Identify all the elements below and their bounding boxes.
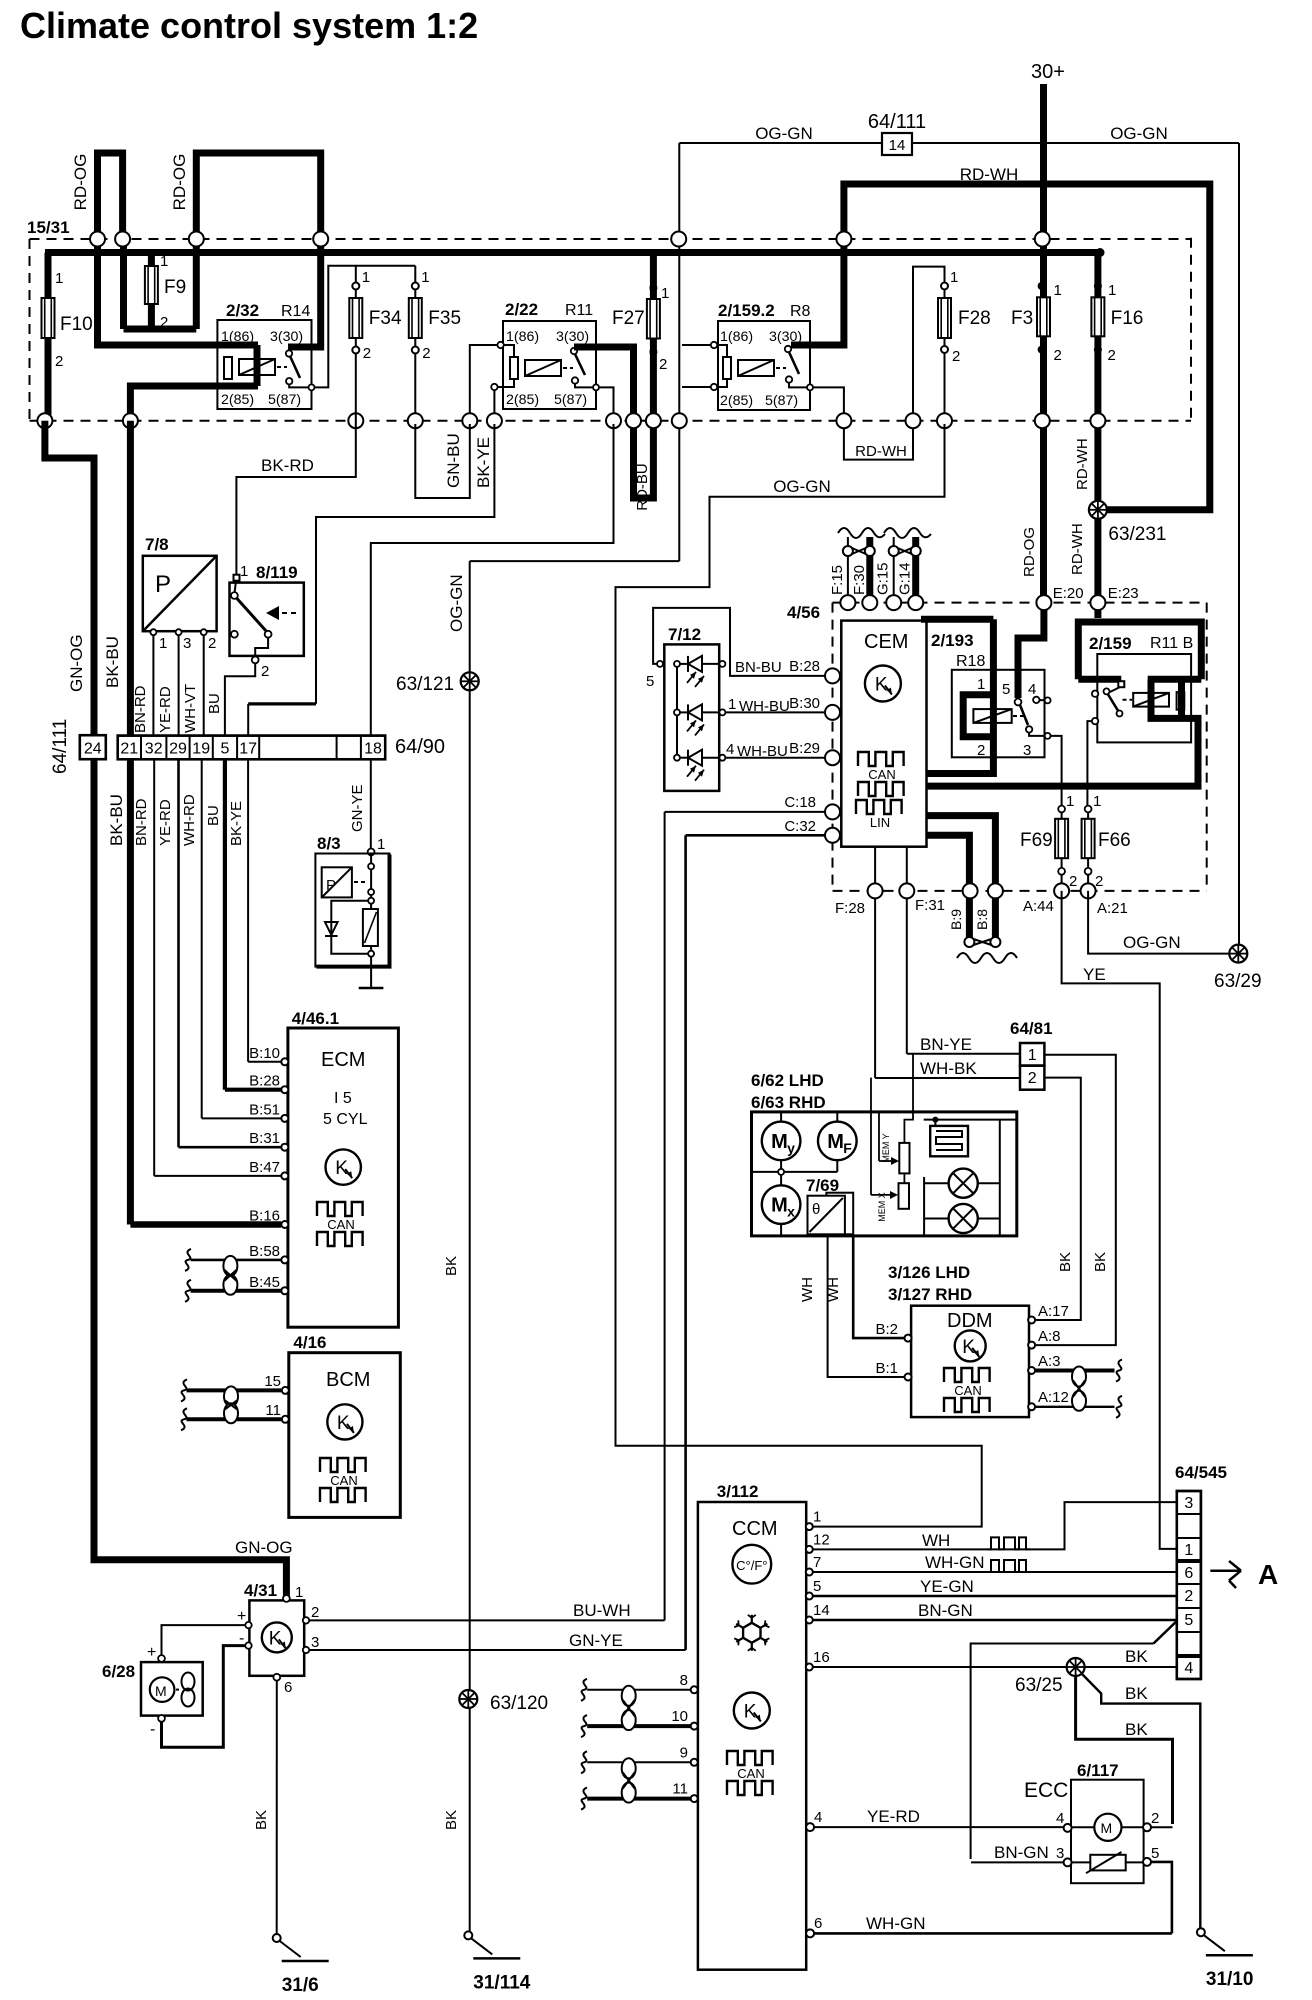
svg-text:RD-BU: RD-BU bbox=[634, 463, 651, 511]
svg-text:BN-GN: BN-GN bbox=[994, 1843, 1049, 1862]
svg-text:YE-RD: YE-RD bbox=[867, 1807, 920, 1826]
svg-text:9: 9 bbox=[680, 1744, 688, 1761]
svg-text:7/12: 7/12 bbox=[668, 625, 701, 644]
svg-text:BK: BK bbox=[1057, 1252, 1074, 1272]
svg-text:1: 1 bbox=[977, 676, 985, 693]
svg-text:BK-BU: BK-BU bbox=[107, 794, 126, 846]
svg-text:1: 1 bbox=[950, 269, 958, 286]
svg-text:3: 3 bbox=[1184, 1495, 1193, 1512]
svg-text:7: 7 bbox=[813, 1554, 821, 1571]
svg-text:M: M bbox=[771, 1131, 788, 1153]
svg-text:6: 6 bbox=[1184, 1565, 1193, 1582]
svg-text:5 CYL: 5 CYL bbox=[323, 1111, 368, 1128]
svg-text:1: 1 bbox=[813, 1509, 821, 1526]
svg-text:OG-GN: OG-GN bbox=[773, 477, 831, 496]
svg-text:1: 1 bbox=[295, 1584, 303, 1601]
svg-text:B:58: B:58 bbox=[249, 1243, 280, 1260]
svg-text:6: 6 bbox=[814, 1915, 822, 1932]
svg-text:K: K bbox=[875, 675, 888, 696]
svg-text:BK: BK bbox=[1125, 1647, 1148, 1666]
svg-text:2/159.2: 2/159.2 bbox=[718, 301, 775, 320]
svg-text:1: 1 bbox=[1108, 282, 1116, 299]
svg-text:WH-BU: WH-BU bbox=[737, 743, 788, 760]
svg-text:18: 18 bbox=[364, 741, 382, 758]
svg-text:3/127 RHD: 3/127 RHD bbox=[888, 1285, 972, 1304]
svg-text:2: 2 bbox=[977, 742, 985, 759]
svg-text:CAN: CAN bbox=[868, 767, 895, 782]
svg-text:y: y bbox=[787, 1140, 795, 1156]
svg-text:M: M bbox=[155, 1683, 167, 1699]
svg-text:24: 24 bbox=[84, 741, 102, 758]
svg-text:2: 2 bbox=[1108, 347, 1116, 364]
svg-text:F: F bbox=[843, 1140, 852, 1156]
svg-text:M: M bbox=[827, 1131, 844, 1153]
svg-text:MEM X: MEM X bbox=[877, 1192, 887, 1222]
svg-text:5: 5 bbox=[646, 673, 654, 690]
svg-text:2: 2 bbox=[261, 663, 269, 680]
svg-text:OG-GN: OG-GN bbox=[755, 124, 813, 143]
svg-text:B:28: B:28 bbox=[249, 1073, 280, 1090]
svg-text:BK: BK bbox=[1092, 1252, 1109, 1272]
svg-text:B:31: B:31 bbox=[249, 1130, 280, 1147]
svg-text:1: 1 bbox=[728, 696, 736, 713]
svg-text:2(85): 2(85) bbox=[506, 392, 539, 408]
svg-text:3(30): 3(30) bbox=[270, 329, 303, 345]
svg-text:4: 4 bbox=[1056, 1810, 1064, 1827]
svg-text:4/46.1: 4/46.1 bbox=[292, 1009, 339, 1028]
svg-text:6/63 RHD: 6/63 RHD bbox=[751, 1093, 826, 1112]
svg-text:2(85): 2(85) bbox=[720, 393, 753, 409]
svg-text:5(87): 5(87) bbox=[765, 393, 798, 409]
svg-text:3/126 LHD: 3/126 LHD bbox=[888, 1263, 970, 1282]
svg-text:BN-YE: BN-YE bbox=[920, 1035, 972, 1054]
svg-text:F69: F69 bbox=[1020, 830, 1053, 851]
svg-text:4/56: 4/56 bbox=[787, 603, 820, 622]
svg-text:YE-RD: YE-RD bbox=[157, 686, 174, 733]
svg-text:6/62 LHD: 6/62 LHD bbox=[751, 1071, 824, 1090]
svg-text:K: K bbox=[269, 1628, 282, 1649]
svg-text:C°/F°: C°/F° bbox=[736, 1558, 767, 1573]
svg-text:RD-WH: RD-WH bbox=[1069, 523, 1086, 575]
svg-text:BK: BK bbox=[443, 1810, 460, 1830]
svg-text:64/81: 64/81 bbox=[1010, 1019, 1053, 1038]
svg-text:3: 3 bbox=[311, 1634, 319, 1651]
svg-text:5: 5 bbox=[1151, 1845, 1159, 1862]
svg-text:2: 2 bbox=[1151, 1810, 1159, 1827]
svg-text:RD-OG: RD-OG bbox=[1021, 527, 1038, 577]
svg-text:x: x bbox=[787, 1204, 795, 1220]
svg-text:3(30): 3(30) bbox=[556, 329, 589, 345]
svg-text:BN-RD: BN-RD bbox=[133, 798, 150, 846]
svg-text:15: 15 bbox=[264, 1373, 281, 1390]
svg-text:+: + bbox=[237, 1608, 246, 1625]
svg-text:5(87): 5(87) bbox=[554, 392, 587, 408]
svg-text:B:29: B:29 bbox=[789, 740, 820, 757]
svg-text:GN-YE: GN-YE bbox=[349, 784, 366, 832]
svg-text:F28: F28 bbox=[958, 308, 991, 329]
svg-text:3: 3 bbox=[183, 635, 191, 652]
svg-text:R18: R18 bbox=[956, 653, 985, 670]
svg-text:7/8: 7/8 bbox=[145, 535, 169, 554]
svg-text:G:14: G:14 bbox=[897, 562, 914, 595]
svg-text:CAN: CAN bbox=[330, 1473, 357, 1488]
svg-text:B:1: B:1 bbox=[875, 1360, 898, 1377]
svg-text:11: 11 bbox=[265, 1402, 281, 1419]
svg-text:2: 2 bbox=[160, 314, 168, 331]
svg-text:4: 4 bbox=[726, 741, 734, 758]
svg-text:31/10: 31/10 bbox=[1206, 1969, 1254, 1990]
svg-text:G:15: G:15 bbox=[875, 562, 892, 595]
svg-text:8/119: 8/119 bbox=[256, 563, 298, 582]
svg-text:4: 4 bbox=[1184, 1660, 1193, 1677]
svg-text:GN-OG: GN-OG bbox=[235, 1538, 293, 1557]
svg-text:2: 2 bbox=[208, 635, 216, 652]
svg-text:F:30: F:30 bbox=[851, 565, 868, 595]
svg-text:BK-YE: BK-YE bbox=[474, 437, 493, 488]
svg-text:29: 29 bbox=[169, 741, 187, 758]
svg-text:R8: R8 bbox=[790, 303, 811, 320]
svg-text:CAN: CAN bbox=[737, 1766, 764, 1781]
svg-text:B:2: B:2 bbox=[875, 1321, 898, 1338]
svg-text:θ: θ bbox=[812, 1201, 820, 1218]
svg-text:63/231: 63/231 bbox=[1108, 524, 1166, 545]
svg-text:E:20: E:20 bbox=[1053, 585, 1084, 602]
svg-text:2: 2 bbox=[952, 348, 960, 365]
svg-text:2: 2 bbox=[1095, 873, 1103, 890]
svg-text:K: K bbox=[744, 1702, 757, 1723]
svg-text:MEM Y: MEM Y bbox=[881, 1133, 891, 1162]
svg-text:F:15: F:15 bbox=[829, 565, 846, 595]
svg-text:ECM: ECM bbox=[321, 1049, 365, 1071]
svg-text:YE-RD: YE-RD bbox=[157, 799, 174, 846]
svg-text:1: 1 bbox=[1054, 282, 1062, 299]
svg-text:2: 2 bbox=[55, 353, 63, 370]
svg-text:19: 19 bbox=[192, 741, 210, 758]
svg-text:64/111: 64/111 bbox=[50, 719, 71, 774]
svg-text:BN-BU: BN-BU bbox=[735, 659, 782, 676]
svg-text:RD-WH: RD-WH bbox=[960, 165, 1019, 184]
svg-text:10: 10 bbox=[671, 1708, 688, 1725]
svg-text:BK: BK bbox=[1125, 1684, 1148, 1703]
svg-text:12: 12 bbox=[813, 1531, 830, 1548]
svg-text:5: 5 bbox=[1002, 681, 1010, 698]
svg-text:5: 5 bbox=[1184, 1612, 1193, 1629]
svg-text:2(85): 2(85) bbox=[221, 392, 254, 408]
svg-text:32: 32 bbox=[145, 741, 163, 758]
svg-text:2/22: 2/22 bbox=[505, 300, 538, 319]
svg-text:B:28: B:28 bbox=[789, 658, 820, 675]
svg-text:1: 1 bbox=[55, 270, 63, 287]
svg-text:17: 17 bbox=[239, 741, 257, 758]
svg-text:14: 14 bbox=[813, 1602, 830, 1619]
svg-text:2: 2 bbox=[422, 345, 430, 362]
svg-text:M: M bbox=[771, 1195, 788, 1217]
svg-text:B:51: B:51 bbox=[249, 1101, 280, 1118]
svg-text:BK-YE: BK-YE bbox=[228, 801, 245, 846]
svg-text:1: 1 bbox=[1093, 793, 1101, 810]
svg-text:K: K bbox=[335, 1158, 348, 1179]
svg-text:2: 2 bbox=[659, 356, 667, 373]
svg-text:F27: F27 bbox=[612, 308, 645, 329]
svg-text:64/545: 64/545 bbox=[1175, 1463, 1227, 1482]
svg-text:+: + bbox=[147, 1644, 156, 1661]
svg-text:2: 2 bbox=[363, 345, 371, 362]
svg-text:F34: F34 bbox=[369, 308, 402, 329]
svg-text:P: P bbox=[155, 571, 171, 598]
svg-text:B:8: B:8 bbox=[974, 909, 990, 930]
svg-text:ECC: ECC bbox=[1024, 1779, 1068, 1802]
svg-text:5(87): 5(87) bbox=[268, 392, 301, 408]
svg-text:B:30: B:30 bbox=[789, 695, 820, 712]
svg-text:4: 4 bbox=[1028, 681, 1036, 698]
svg-text:21: 21 bbox=[120, 741, 138, 758]
svg-text:R11: R11 bbox=[565, 302, 593, 319]
svg-text:A:17: A:17 bbox=[1038, 1303, 1069, 1320]
svg-text:R11 B: R11 B bbox=[1150, 635, 1193, 652]
svg-text:63/120: 63/120 bbox=[490, 1693, 548, 1714]
svg-text:M: M bbox=[1101, 1820, 1113, 1836]
svg-text:BN-RD: BN-RD bbox=[132, 685, 149, 733]
svg-text:GN-OG: GN-OG bbox=[67, 634, 86, 692]
svg-text:2/32: 2/32 bbox=[226, 301, 259, 320]
svg-text:6: 6 bbox=[284, 1679, 292, 1696]
svg-text:F10: F10 bbox=[60, 314, 93, 335]
svg-text:2/159: 2/159 bbox=[1089, 634, 1132, 653]
svg-text:RD-OG: RD-OG bbox=[170, 154, 189, 211]
svg-text:31/6: 31/6 bbox=[282, 1975, 319, 1996]
svg-text:63/25: 63/25 bbox=[1015, 1675, 1063, 1696]
svg-text:30+: 30+ bbox=[1031, 61, 1065, 83]
svg-text:GN-YE: GN-YE bbox=[569, 1631, 623, 1650]
svg-text:63/29: 63/29 bbox=[1214, 971, 1262, 992]
svg-text:WH: WH bbox=[825, 1277, 842, 1302]
svg-text:6/117: 6/117 bbox=[1077, 1761, 1119, 1780]
svg-text:4/31: 4/31 bbox=[244, 1581, 277, 1600]
svg-text:BU: BU bbox=[206, 693, 223, 714]
svg-text:CCM: CCM bbox=[732, 1518, 778, 1540]
svg-text:1: 1 bbox=[362, 269, 370, 286]
svg-text:OG-GN: OG-GN bbox=[1123, 933, 1181, 952]
svg-text:63/121: 63/121 bbox=[396, 674, 454, 695]
svg-text:6/28: 6/28 bbox=[102, 1662, 135, 1681]
svg-text:P: P bbox=[326, 877, 336, 894]
svg-text:OG-GN: OG-GN bbox=[447, 574, 466, 632]
svg-text:3: 3 bbox=[1056, 1845, 1064, 1862]
svg-text:WH-GN: WH-GN bbox=[866, 1914, 925, 1933]
svg-text:8: 8 bbox=[680, 1672, 688, 1689]
svg-text:A:8: A:8 bbox=[1038, 1328, 1061, 1345]
svg-text:B:45: B:45 bbox=[249, 1274, 280, 1291]
svg-text:11: 11 bbox=[672, 1781, 688, 1798]
svg-text:WH-VT: WH-VT bbox=[182, 684, 199, 733]
svg-text:2: 2 bbox=[1028, 1070, 1037, 1087]
svg-text:-: - bbox=[150, 1721, 155, 1738]
svg-text:5: 5 bbox=[221, 741, 230, 758]
svg-text:F:31: F:31 bbox=[915, 897, 945, 914]
svg-text:WH: WH bbox=[922, 1531, 950, 1550]
svg-text:2: 2 bbox=[1054, 347, 1062, 364]
svg-text:4: 4 bbox=[814, 1809, 822, 1826]
svg-text:15/31: 15/31 bbox=[27, 218, 70, 237]
svg-text:WH: WH bbox=[799, 1277, 816, 1302]
svg-text:3: 3 bbox=[1023, 742, 1031, 759]
svg-text:RD-WH: RD-WH bbox=[855, 443, 907, 460]
svg-text:BU: BU bbox=[205, 805, 222, 826]
svg-text:RD-WH: RD-WH bbox=[1074, 438, 1091, 490]
svg-text:F:28: F:28 bbox=[835, 900, 865, 917]
svg-text:YE: YE bbox=[1083, 965, 1106, 984]
svg-text:16: 16 bbox=[813, 1649, 830, 1666]
svg-text:WH-BK: WH-BK bbox=[920, 1059, 977, 1078]
svg-text:F35: F35 bbox=[428, 308, 461, 329]
svg-text:2: 2 bbox=[311, 1604, 319, 1621]
svg-text:A:21: A:21 bbox=[1097, 900, 1128, 917]
svg-text:B:47: B:47 bbox=[249, 1159, 280, 1176]
svg-text:2: 2 bbox=[1184, 1588, 1193, 1605]
svg-text:31/114: 31/114 bbox=[473, 1972, 530, 1993]
svg-text:1: 1 bbox=[1028, 1047, 1037, 1064]
svg-text:A:44: A:44 bbox=[1023, 898, 1054, 915]
svg-text:A:3: A:3 bbox=[1038, 1353, 1061, 1370]
svg-text:B:16: B:16 bbox=[249, 1208, 280, 1225]
svg-text:A: A bbox=[1258, 1559, 1278, 1590]
svg-text:RD-OG: RD-OG bbox=[71, 154, 90, 211]
svg-text:C:32: C:32 bbox=[784, 818, 816, 835]
svg-text:LIN: LIN bbox=[870, 815, 890, 830]
svg-text:BK: BK bbox=[443, 1256, 460, 1276]
svg-text:BK: BK bbox=[1125, 1720, 1148, 1739]
svg-text:1(86): 1(86) bbox=[506, 329, 539, 345]
svg-text:1(86): 1(86) bbox=[221, 329, 254, 345]
svg-text:OG-GN: OG-GN bbox=[1110, 124, 1168, 143]
svg-text:3/112: 3/112 bbox=[717, 1482, 759, 1501]
svg-text:64/111: 64/111 bbox=[868, 111, 926, 133]
svg-text:K: K bbox=[337, 1413, 350, 1434]
svg-text:YE-GN: YE-GN bbox=[920, 1577, 974, 1596]
svg-text:B:9: B:9 bbox=[948, 909, 964, 930]
svg-text:BU-WH: BU-WH bbox=[573, 1601, 631, 1620]
svg-text:BCM: BCM bbox=[326, 1369, 370, 1391]
svg-text:1: 1 bbox=[377, 836, 385, 853]
svg-text:14: 14 bbox=[889, 137, 906, 154]
svg-text:E:23: E:23 bbox=[1108, 585, 1139, 602]
svg-text:WH-GN: WH-GN bbox=[925, 1553, 984, 1572]
svg-text:64/90: 64/90 bbox=[395, 736, 445, 758]
svg-text:1: 1 bbox=[421, 269, 429, 286]
svg-text:WH-BU: WH-BU bbox=[739, 698, 790, 715]
svg-text:4/16: 4/16 bbox=[293, 1333, 326, 1352]
svg-text:B:10: B:10 bbox=[249, 1045, 280, 1062]
svg-text:C:18: C:18 bbox=[784, 794, 816, 811]
svg-text:F66: F66 bbox=[1098, 830, 1131, 851]
svg-text:K: K bbox=[962, 1337, 975, 1358]
svg-text:1: 1 bbox=[1184, 1542, 1193, 1559]
svg-text:I 5: I 5 bbox=[334, 1090, 352, 1107]
svg-text:CAN: CAN bbox=[327, 1217, 354, 1232]
svg-text:BK-BU: BK-BU bbox=[103, 636, 122, 688]
svg-text:2: 2 bbox=[1069, 873, 1077, 890]
svg-text:CAN: CAN bbox=[954, 1383, 981, 1398]
svg-text:DDM: DDM bbox=[947, 1310, 993, 1332]
svg-text:1(86): 1(86) bbox=[720, 329, 753, 345]
svg-text:R14: R14 bbox=[281, 303, 310, 320]
svg-text:BK: BK bbox=[253, 1810, 270, 1830]
svg-text:BN-GN: BN-GN bbox=[918, 1601, 973, 1620]
svg-text:1: 1 bbox=[1066, 793, 1074, 810]
svg-text:1: 1 bbox=[159, 635, 167, 652]
svg-text:Climate control system 1:2: Climate control system 1:2 bbox=[20, 5, 478, 46]
svg-text:A:12: A:12 bbox=[1038, 1389, 1069, 1406]
svg-text:2/193: 2/193 bbox=[931, 631, 974, 650]
svg-text:CEM: CEM bbox=[864, 631, 908, 653]
svg-text:1: 1 bbox=[160, 253, 168, 270]
svg-text:F16: F16 bbox=[1111, 308, 1144, 329]
svg-text:1: 1 bbox=[661, 285, 669, 302]
svg-text:BK-RD: BK-RD bbox=[261, 456, 314, 475]
svg-text:GN-BU: GN-BU bbox=[444, 433, 463, 488]
svg-text:1: 1 bbox=[240, 563, 248, 580]
svg-text:F3: F3 bbox=[1011, 308, 1033, 329]
svg-text:F9: F9 bbox=[164, 277, 186, 298]
svg-text:5: 5 bbox=[813, 1578, 821, 1595]
svg-text:8/3: 8/3 bbox=[317, 834, 341, 853]
svg-text:WH-RD: WH-RD bbox=[181, 794, 198, 846]
